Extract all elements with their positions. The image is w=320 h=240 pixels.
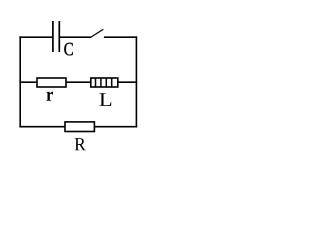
wire: middle rail right segment (L to right rail) [118,81,138,83]
resistor R box [65,122,94,132]
capacitor C plates [53,21,59,52]
inductor L internal dividers [96,78,112,87]
wire: top rail left segment (to capacitor) [19,36,52,38]
inductor L box [91,78,118,87]
wire: top rail middle segment (capacitor to switch) [60,36,91,38]
wire: bottom rail left segment [19,126,64,128]
label C [64,43,73,56]
switch S lever (open) [91,29,103,37]
label r [47,92,54,101]
label L [100,93,112,106]
label R [75,138,86,150]
resistor r box [37,78,66,87]
wire: right rail [135,36,137,127]
wire: top rail right segment (switch to right rail) [104,36,137,38]
wire: left rail [19,36,21,127]
wire: middle rail centre segment (r to L) [67,81,91,83]
wire: middle rail left segment [19,81,36,83]
wire: bottom rail right segment [94,126,137,128]
